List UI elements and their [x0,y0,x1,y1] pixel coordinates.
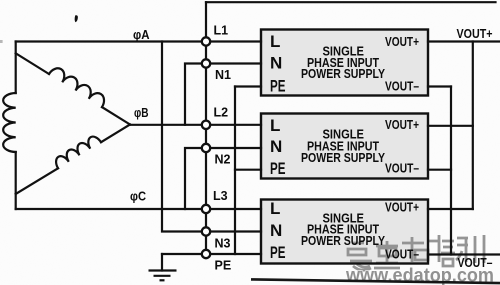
wire VOUT+ bus vertical [472,42,474,210]
wire phase C horizontal [16,208,206,210]
wire PSU1 VOUT- to bus [428,85,451,87]
wire PE bus to PSU2 PE pin [235,169,261,171]
svg-text:VOUT–: VOUT– [385,247,419,262]
svg-text:N2: N2 [215,153,231,167]
PSU U1 box border [261,30,428,96]
svg-text:φC: φC [130,189,147,204]
transformer T1 delta winding top side [16,53,130,124]
svg-text:VOUT–: VOUT– [458,256,493,270]
wire phase A horizontal [16,40,206,42]
svg-text:POWER SUPPLY: POWER SUPPLY [301,150,385,165]
stray mark (apostrophe) top left [75,15,78,22]
svg-text:N3: N3 [215,237,231,251]
PSU U1 box body [261,30,428,96]
svg-text:L1: L1 [214,24,229,38]
svg-text:VOUT+: VOUT+ [385,117,419,132]
terminal PE [202,250,210,258]
svg-text:PE: PE [270,243,286,262]
svg-text:L2: L2 [214,106,229,120]
wire phase A to N3 riser [162,42,206,232]
wire L1 to PSU1 L pin [206,40,261,42]
terminal L3 [202,205,210,213]
wire PSU3 VOUT- output line [428,253,500,255]
PSU U2 box body [261,114,428,179]
transformer T1 winding coil phase A-B [49,68,104,107]
figure bottom rule [251,279,500,283]
svg-text:PE: PE [215,259,232,273]
PSU U3 box border [261,200,428,264]
transformer T1 delta winding bottom side [16,125,130,195]
svg-text:PE: PE [270,159,286,178]
wire PSU2 VOUT+ to bus [428,125,473,127]
transformer T1 winding coil phase B-C [56,137,101,169]
svg-text:L: L [270,116,280,135]
svg-text:N: N [270,221,282,240]
wire terminal bus vertical [205,2,207,254]
terminal N2 [202,144,210,152]
wire phase C to N2 riser [185,148,206,209]
wire N1 to PSU1 N pin [206,62,261,64]
wire L2 to PSU2 L pin [206,124,261,126]
svg-text:L3: L3 [213,189,228,203]
terminal N1 [202,59,210,67]
wire PSU3 VOUT+ to bus [428,208,473,210]
terminal N3 [202,227,210,235]
wire phase B horizontal [130,124,206,126]
svg-text:N: N [270,54,282,73]
svg-text:φA: φA [133,27,150,42]
ground symbol [149,271,177,281]
wire PSU2 VOUT- to bus [428,169,451,171]
terminal L2 [202,121,210,129]
wire L3 to PSU3 L pin [206,208,261,210]
svg-text:VOUT+: VOUT+ [385,200,419,215]
wire ground riser [161,254,163,271]
terminal L1 [202,37,210,45]
svg-text:L: L [270,199,280,218]
transformer T1 delta winding left side [15,42,17,210]
svg-text:N1: N1 [215,68,231,82]
wire phase B to N1 riser [185,64,206,125]
svg-text:VOUT+: VOUT+ [457,27,493,41]
wire PE bus to PSU1 PE pin [235,85,261,87]
wire VOUT+ bus horizontal [428,40,499,42]
PSU U3 box body [261,200,428,264]
wire PE horizontal to PSU3 PE pin [162,253,261,255]
svg-text:POWER SUPPLY: POWER SUPPLY [301,233,385,248]
watermark CJK characters [348,235,484,270]
svg-text:VOUT+: VOUT+ [385,34,419,49]
wire top bus [206,1,496,3]
svg-text:POWER SUPPLY: POWER SUPPLY [301,66,385,81]
wire PE bus vertical [234,87,236,255]
wire N3 to PSU3 N pin [206,230,261,232]
transformer T1 winding coil phase A-C [3,93,16,152]
svg-text:PE: PE [270,77,286,96]
svg-text:VOUT–: VOUT– [385,161,419,176]
svg-text:VOUT–: VOUT– [385,78,419,93]
wire N2 to PSU2 N pin [206,147,261,149]
svg-text:N: N [270,137,282,156]
PSU U2 box border [261,114,428,179]
svg-text:L: L [270,32,280,51]
wire VOUT- bus vertical [450,87,452,255]
scan smudge left edge [0,40,3,43]
svg-text:φB: φB [134,105,149,120]
